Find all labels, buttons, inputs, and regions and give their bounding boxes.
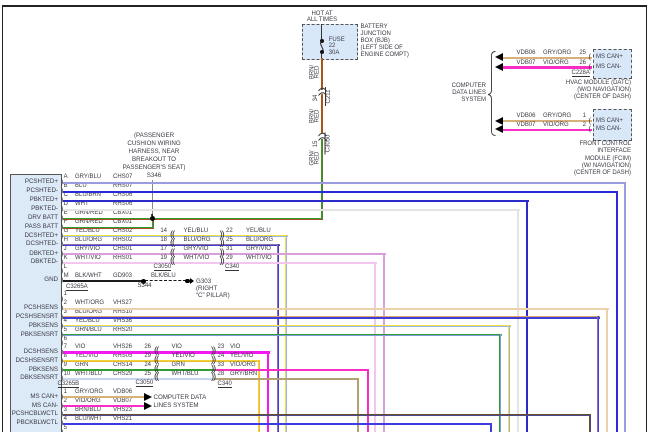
label YEL/VIO mid row 8: [172, 353, 195, 360]
label PBKTED+: [11, 196, 58, 203]
label DCSHSENSRT: [11, 357, 58, 364]
pin F C3265A: [64, 219, 68, 226]
wire BLU/ORG 3 down vertical: [597, 316, 600, 432]
pin 2 C3265C: [64, 398, 67, 405]
pin G C3265A: [64, 228, 69, 235]
connector C3050 halves row 8: [154, 356, 158, 363]
splice S346 wire-end dot: [151, 214, 153, 216]
pin M C3265A: [64, 273, 69, 280]
fuse F22 terminal dot top: [320, 39, 324, 43]
pin 4 C3265C: [64, 416, 67, 423]
brace computer data lines system: [487, 51, 497, 136]
label PBKSENSRT: [11, 331, 58, 338]
label HOT AT ALL TIMES: [288, 11, 356, 24]
label VDB06 HVAC (DATC): [517, 50, 536, 57]
label WHT/VIO after C340 row K: [246, 255, 272, 262]
connector C340 halves row 7: [211, 347, 215, 354]
pin 15 C3050: [313, 136, 319, 152]
wire YEL/BLU 4 down vertical: [508, 325, 510, 432]
splice S346: [150, 216, 155, 221]
label DRV BATT: [11, 214, 58, 221]
wire BRN/BLU down vertical: [589, 414, 591, 432]
label MS CAN+ FCIM: [596, 118, 623, 125]
label BLU/ORG RHS10: [75, 309, 102, 316]
pin bracket C3265A pin J: [61, 250, 64, 257]
label GRY/BRN after C340 row 10: [230, 371, 257, 378]
wire BLK/WHT M horizontal: [63, 280, 144, 282]
label code VHS21: [113, 416, 132, 423]
label BLU RHS07: [75, 183, 87, 190]
wire WHT D horizontal: [63, 209, 520, 211]
connector C3050 halves row H: [170, 239, 174, 246]
pin 28 C340 row 10: [218, 371, 225, 378]
pin J C3265A: [64, 246, 67, 253]
label COMPUTER DATA LINES SYSTEM (left): [154, 394, 207, 410]
label COMPUTER DATA LINES SYSTEM (right): [336, 83, 486, 105]
label GRY/VIO CHS01: [75, 246, 100, 253]
label PCSHTED-: [11, 187, 58, 194]
label WHT/BLU mid row 10: [172, 371, 199, 378]
pin bracket C3265B pin 1: [61, 295, 64, 302]
label GRY/VIO after C340 row J: [246, 246, 271, 253]
pin bracket C3265B pin 8: [61, 357, 64, 364]
pin bracket C3265C pin 1: [61, 393, 64, 400]
pin 1 C3265C: [64, 389, 67, 396]
connector C340 halves row 8: [211, 356, 215, 363]
pin 29 C3050 row 8: [136, 353, 151, 360]
label S346 note: [104, 132, 204, 181]
pin bracket C3265B pin 10: [61, 374, 64, 381]
wire GRN/BLU 5 horizontal: [63, 334, 502, 336]
label MS CAN- HVAC (DATC): [596, 64, 621, 71]
wire GRY/VIO J horizontal: [63, 253, 386, 255]
pin bracket C3265A pin F: [61, 223, 64, 230]
label BRN/BLU VHS23: [75, 407, 101, 414]
arrow off-page GRY/ORG HVAC (DATC): [495, 53, 503, 61]
label DCSHTED-: [11, 240, 58, 247]
connector label C340: [225, 264, 239, 271]
label BLU/ORG mid row H: [184, 237, 211, 244]
label VIO mid row 7: [172, 344, 182, 351]
label code CBX01: [113, 210, 132, 217]
pin bracket C3265B pin 9: [61, 366, 64, 373]
label code CHS02: [113, 228, 132, 235]
pin K C3265A: [64, 255, 68, 262]
splice S344: [141, 279, 146, 284]
label VIO VHS26: [75, 344, 85, 351]
pin bracket HVAC (DATC) pin b: [589, 63, 592, 70]
label GND: [11, 276, 58, 283]
pin number 2 FCIM: [570, 122, 586, 129]
pin H C3265A: [64, 237, 68, 244]
wire BRN/BLU PCSHCBLWCTL horizontal: [63, 414, 591, 416]
wire BRN/RED fuse to C211: [321, 58, 323, 90]
wire BRN/RED C211 to C3050: [321, 94, 323, 133]
wire GRY/BRN 10 horizontal: [215, 378, 359, 380]
pin bracket FCIM pin a: [589, 117, 592, 124]
fuse F22 terminal dot bottom: [320, 50, 324, 54]
connector C340 halves row 9: [211, 365, 215, 372]
seat module connector box: [10, 174, 62, 432]
wire VIO/ORG MS CAN- horizontal: [63, 405, 144, 407]
wire WHT/VIO K horizontal: [63, 262, 377, 264]
pin 25 C340 row H: [226, 237, 233, 244]
connector label C3050: [154, 264, 172, 271]
label MS CAN+: [11, 393, 58, 400]
pin bracket C3265C pin 3: [61, 410, 64, 417]
wire BLU B horizontal: [63, 191, 618, 193]
pin 6 C3265B: [64, 336, 67, 343]
label VDB07 FCIM: [517, 122, 536, 129]
label code VDB07: [113, 398, 132, 405]
label code CHS14: [113, 362, 132, 369]
pin number 25 HVAC (DATC): [570, 50, 586, 57]
border frame top: [2, 5, 646, 7]
pin 8 C3265B: [64, 353, 67, 360]
label WHT/ORG VHS27: [75, 300, 104, 307]
label PCSHTED+: [11, 178, 58, 185]
ground G303 symbol: [185, 279, 189, 283]
label code CHS01: [113, 246, 132, 253]
pin 24 C340 row 8: [218, 353, 225, 360]
pin 3 C3265C: [64, 407, 67, 414]
connector C3050 halves row J: [170, 249, 174, 256]
wire BLU/WHT PBCKBLWCTL horizontal: [63, 423, 492, 425]
pin bracket C3265C pin 4: [61, 419, 64, 426]
pin bracket C3265A pin A: [61, 178, 64, 185]
wire GRY/BLU A down vertical: [624, 182, 626, 432]
pin 5 C3265B: [64, 327, 67, 334]
pin 1 C3265B: [64, 291, 67, 298]
connector C3050 halves row K: [170, 257, 174, 264]
arrow off-page GRY/ORG FCIM: [495, 117, 503, 125]
label BLK/WHT GD903: [75, 273, 102, 280]
connector C211 symbol: [318, 87, 327, 96]
wire BLU/BRN C horizontal: [63, 200, 529, 202]
wire VIO/ORG 9 down vertical: [367, 369, 369, 432]
battery junction box (BJB): [302, 24, 358, 60]
wire VIO/ORG to FCIM: [502, 129, 592, 131]
border frame right: [646, 5, 648, 432]
connector C3050 halves row G: [170, 231, 174, 238]
label FUSE 22 30A: [329, 37, 345, 57]
wire BLK/BLU dashed: [145, 280, 186, 281]
pin bracket C3265C pin 2: [61, 402, 64, 409]
pin 24 C3050 row 9: [136, 362, 151, 369]
label PCSHSENS: [11, 304, 58, 311]
pin L C3265A: [64, 264, 67, 271]
label GRY/ORG VDB06: [75, 389, 103, 396]
label GRN mid row 9: [172, 362, 185, 369]
wire VIO 7 down vertical: [267, 351, 269, 432]
wire BLU/WHT down vertical: [490, 423, 492, 432]
wire GRN/RED F horizontal: [63, 227, 154, 229]
pin bracket C3265B pin 5: [61, 331, 64, 338]
pin bracket C3265A pin H: [61, 240, 64, 247]
wire YEL/VIO 8 horizontal: [63, 360, 260, 362]
pin bracket C3265B pin 7: [61, 348, 64, 355]
wire YEL/BLU G down vertical: [285, 235, 287, 432]
wire WHT/VIO K down vertical: [374, 262, 376, 432]
fuse F22 lead bottom: [321, 53, 322, 59]
label VIO/ORG HVAC (DATC): [543, 60, 569, 67]
pin bracket C3265A pin D: [61, 205, 64, 212]
pin C C3265A: [64, 192, 68, 199]
label PBCKBLWCTL: [11, 419, 58, 426]
pin bracket C3265A pin K: [61, 258, 64, 265]
pin bracket C3265B pin 4: [61, 322, 64, 329]
label C3050 (vertical): [325, 133, 332, 155]
label code RHS20: [113, 327, 132, 334]
label PCSHSENSRT: [11, 313, 58, 320]
pin bracket C3265A pin G: [61, 232, 64, 239]
connector C3050 symbol (vertical): [318, 132, 327, 141]
wire WHT D down vertical: [517, 209, 519, 432]
pin 26 C3050 row 7: [136, 344, 151, 351]
pin 34 C211: [313, 90, 319, 106]
wire VIO/ORG 9 horizontal: [215, 369, 369, 371]
pin 29 C340 row K: [226, 255, 233, 262]
label BATTERY JUNCTION BOX: [361, 24, 409, 59]
label code VHS27: [113, 300, 132, 307]
label PBKTED-: [11, 205, 58, 212]
label MS CAN+ HVAC (DATC): [596, 54, 623, 61]
wire GRY/ORG to FCIM: [502, 120, 592, 122]
label PCSHCBLWCTL: [11, 410, 58, 417]
label YEL/VIO after C340 row 8: [230, 353, 253, 360]
wire GRY/BRN 10 down vertical: [357, 378, 359, 432]
label MS CAN-: [11, 402, 58, 409]
label BRN/RED (2): [311, 104, 327, 129]
label YEL/BLU CHS02: [75, 228, 100, 235]
wire GRN/RED F riser vertical: [152, 220, 154, 227]
label WHT/VIO RHS01: [75, 255, 101, 262]
label PASS BATT: [11, 223, 58, 230]
connector label C340 lower: [218, 381, 232, 388]
label code CHS06: [113, 192, 132, 199]
label code RHS05: [113, 353, 132, 360]
pin D C3265A: [64, 201, 68, 208]
label code VHS36: [113, 318, 132, 325]
wire VIO/ORG to HVAC (DATC): [502, 66, 592, 68]
wire YEL/BLU G horizontal: [63, 235, 288, 237]
wire S346 lead: [152, 180, 153, 219]
pin 22 C340 row G: [226, 228, 233, 235]
wire YEL/BLU 4 horizontal: [63, 325, 511, 327]
pin E C3265A: [64, 210, 68, 217]
label BRN/RED (1): [311, 60, 327, 85]
border frame left: [2, 5, 4, 432]
label code RHS01: [113, 255, 132, 262]
wire VIO 7 horizontal: [63, 351, 270, 353]
label YEL/BLU VHS36: [75, 318, 100, 325]
connector C340 halves row 10: [211, 373, 215, 380]
pin 4 C3265B: [64, 318, 67, 325]
wire BLU/ORG H horizontal: [63, 244, 280, 247]
label YEL/BLU after C340 row G: [246, 228, 271, 235]
label BLU/ORG RHS02: [75, 237, 102, 244]
label DBKSENSRT: [11, 374, 58, 381]
wire WHT/ORG 2 down vertical: [606, 308, 608, 432]
pin 3 C3265B: [64, 309, 67, 316]
connector label C3265A: [66, 284, 88, 291]
wire BLU/ORG H down vertical: [277, 244, 280, 432]
label S344: [138, 283, 152, 290]
label BLU/ORG after C340 row H: [246, 237, 273, 244]
arrow off-page MS CAN-: [144, 402, 152, 410]
connector label C228A: [572, 70, 590, 77]
connector C3050 halves row 10: [154, 373, 158, 380]
module name HVAC (DATC): [431, 80, 631, 102]
label VIO after C340 row 7: [230, 344, 240, 351]
pin 25 C3050 row 10: [136, 371, 151, 378]
label GRN/RED CBX01: [75, 219, 103, 226]
pin bracket FCIM pin b: [589, 125, 592, 132]
pin 18 C3050 row H: [152, 237, 167, 244]
arrow off-page MS CAN+: [144, 393, 152, 401]
pin 9 C3265B: [64, 362, 67, 369]
module name FCIM: [431, 141, 631, 177]
label GRN CHS14: [75, 362, 88, 369]
wire GRN/RED E horizontal: [63, 218, 323, 220]
label DBKTED+: [11, 250, 58, 257]
label GRY/ORG FCIM: [543, 113, 571, 120]
label YEL/VIO RHS05: [75, 353, 98, 360]
label code VHS26: [113, 344, 132, 351]
label VDB07 HVAC (DATC): [517, 60, 536, 67]
label BLU/BRN CHS06: [75, 192, 101, 199]
label code RHS06: [113, 201, 132, 208]
pin 17 C3050 row J: [152, 246, 167, 253]
label GRY/ORG HVAC (DATC): [543, 50, 571, 57]
label WHT RHS06: [75, 201, 89, 208]
label BLK/BLU: [151, 273, 176, 280]
pin 2 C3265B: [64, 300, 67, 307]
label DCSHTED+: [11, 232, 58, 239]
pin bracket C3265B pin 6: [61, 339, 64, 346]
pin bracket C3265A pin E: [61, 214, 64, 221]
pin bracket HVAC (DATC) pin a: [589, 53, 592, 60]
label code RHS02: [113, 237, 132, 244]
pin bracket C3265C pin 5: [61, 428, 64, 432]
label WHT/BLU CHS29: [75, 371, 102, 378]
wire GRN 9 horizontal: [63, 369, 215, 371]
wire BLU/BRN C down vertical: [526, 200, 528, 432]
pin 14 C3050 row G: [152, 228, 167, 235]
pin number 1 FCIM: [570, 113, 586, 120]
label code VDB06: [113, 389, 132, 396]
pin 5 C3265C: [64, 425, 67, 432]
label code CHS29: [113, 371, 132, 378]
pin number 26 HVAC (DATC): [570, 60, 586, 67]
label GRN/BLU RHS20: [75, 327, 102, 334]
pin bracket C3265B pin 3: [61, 313, 64, 320]
connector C340 halves row H: [220, 239, 224, 246]
connector label C3050 lower: [136, 380, 154, 387]
arrow off-page VIO/ORG FCIM: [495, 125, 503, 133]
label code RHS07: [113, 183, 132, 190]
wire BLU B down vertical: [616, 191, 618, 432]
label C211: [325, 87, 332, 106]
pin bracket C3265A pin C: [61, 196, 64, 203]
label DCSHSENS: [11, 348, 58, 355]
label DBKTED-: [11, 258, 58, 265]
wire GRN/RED C3050 down to DRV BATT row: [321, 139, 323, 220]
wire YEL/VIO 8 down vertical: [258, 360, 260, 432]
pin 31 C340 row J: [226, 246, 233, 253]
wire WHT/BLU 10 horizontal: [63, 378, 215, 380]
pin bracket C3265A pin L: [61, 267, 64, 274]
label code GD903: [113, 273, 132, 280]
arrow off-page VIO/ORG HVAC (DATC): [495, 63, 503, 71]
label GRY/VIO mid row J: [184, 246, 209, 253]
pin B C3265A: [64, 183, 68, 190]
label VIO/ORG FCIM: [543, 122, 569, 129]
label VIO/ORG VDB07: [75, 398, 101, 405]
label VDB06 FCIM: [517, 113, 536, 120]
pin 33 C340 row 9: [218, 362, 225, 369]
wire GRY/BLU A horizontal: [63, 182, 626, 184]
fuse F22 element: [314, 41, 330, 53]
pin bracket C3265A pin B: [61, 187, 64, 194]
label code RHS10: [113, 309, 132, 316]
pin 23 C340 row 7: [218, 344, 225, 351]
pin bracket C3265B pin 2: [61, 304, 64, 311]
wire BLU/ORG 3 horizontal: [63, 316, 600, 319]
label GRN/RED: [311, 146, 327, 171]
pin bracket C3265A pin M: [61, 276, 64, 283]
wire GRY/VIO J down vertical: [383, 253, 385, 432]
module box FCIM: [593, 109, 632, 141]
wire GRN/BLU 5 down vertical: [499, 334, 501, 432]
pin 10 C3265B: [64, 371, 71, 378]
label PBKSENS: [11, 366, 58, 373]
label code VHS23: [113, 407, 132, 414]
connector label C3265B: [58, 381, 80, 388]
connector C3050 halves row 9: [154, 365, 158, 372]
label MS CAN- FCIM: [596, 126, 621, 133]
pin A C3265A: [64, 174, 68, 181]
fuse F22 lead top: [321, 24, 322, 41]
label code CBX01: [113, 219, 132, 226]
module box HVAC (DATC): [593, 49, 632, 80]
pin 7 C3265B: [64, 344, 67, 351]
wire WHT/ORG 2 horizontal: [63, 308, 609, 310]
label code CHS07: [113, 174, 132, 181]
label WHT/VIO mid row K: [184, 255, 210, 262]
label YEL/BLU mid row G: [184, 228, 209, 235]
label PBKSENS: [11, 322, 58, 329]
wire GRY/ORG MS CAN+ horizontal: [63, 396, 144, 398]
connector C340 halves row K: [220, 257, 224, 264]
connector C340 halves row J: [220, 249, 224, 256]
label GRY/BLU CHS07: [75, 174, 101, 181]
label G303: [196, 278, 230, 299]
wire GRY/ORG to HVAC (DATC): [502, 57, 592, 59]
label GRN/RED CBX01: [75, 210, 103, 217]
label BLU/WHT VHS21: [75, 416, 102, 423]
connector C340 halves row G: [220, 231, 224, 238]
connector C3050 halves row 7: [154, 347, 158, 354]
pin 19 C3050 row K: [152, 255, 167, 262]
label VIO/ORG after C340 row 9: [230, 362, 256, 369]
